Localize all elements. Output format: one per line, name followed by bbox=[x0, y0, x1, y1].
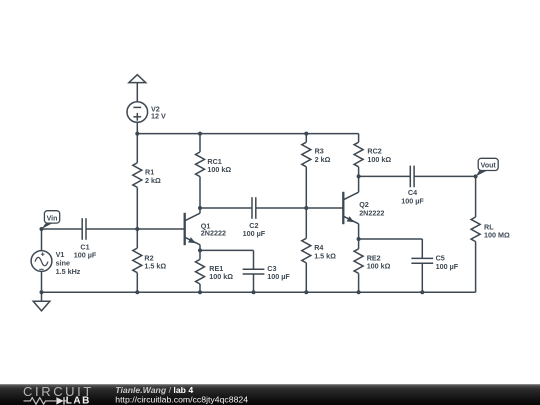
svg-text:100 µF: 100 µF bbox=[74, 251, 97, 260]
svg-text:2 kΩ: 2 kΩ bbox=[315, 155, 331, 164]
node top-rail/R1 bbox=[135, 132, 139, 136]
capacitor C2 bbox=[251, 197, 253, 219]
wire bbox=[256, 207, 306, 209]
node Vout bbox=[474, 174, 478, 178]
node rail/RE2 bbox=[357, 290, 361, 294]
node base/R1/R2 bbox=[135, 227, 139, 231]
svg-text:1.5 kΩ: 1.5 kΩ bbox=[314, 252, 336, 261]
node rail/R4 bbox=[304, 290, 308, 294]
wire bbox=[359, 175, 411, 177]
power supply arrow bbox=[129, 75, 146, 83]
node flag Vout bbox=[476, 170, 488, 176]
node ground/rail bbox=[40, 290, 44, 294]
resistor R1 bbox=[136, 134, 138, 163]
svg-text:100 kΩ: 100 kΩ bbox=[367, 262, 391, 271]
node Q2 base bbox=[304, 206, 308, 210]
capacitor C1 bbox=[81, 218, 83, 240]
wire bbox=[359, 238, 423, 240]
capacitor C4 bbox=[409, 166, 411, 188]
capacitor C5 bbox=[421, 239, 423, 258]
node Vin bbox=[40, 227, 44, 231]
svg-text:100 µF: 100 µF bbox=[243, 229, 266, 238]
svg-text:100 µF: 100 µF bbox=[267, 272, 290, 281]
svg-text:Vin: Vin bbox=[47, 215, 58, 222]
svg-text:http://circuitlab.com/cc8jty4q: http://circuitlab.com/cc8jty4qc8824 bbox=[115, 394, 248, 404]
node rail/RE1 bbox=[198, 290, 202, 294]
wire bbox=[86, 228, 185, 230]
wire bbox=[42, 291, 476, 293]
wire bbox=[200, 249, 254, 251]
wire bbox=[358, 176, 360, 187]
svg-text:100 µF: 100 µF bbox=[401, 197, 424, 206]
wire bbox=[42, 228, 83, 230]
transistor Q1 bbox=[184, 213, 186, 245]
sine source V1 bbox=[31, 251, 52, 272]
svg-text:100 µF: 100 µF bbox=[436, 262, 459, 271]
wire bbox=[41, 229, 43, 251]
wire bbox=[136, 83, 138, 102]
wire bbox=[136, 122, 138, 133]
svg-text:100 MΩ: 100 MΩ bbox=[484, 231, 510, 240]
svg-text:2N2222: 2N2222 bbox=[359, 208, 384, 217]
resistor R4 bbox=[305, 208, 307, 238]
node Q2 collector bbox=[357, 174, 361, 178]
CircuitLab logo resistor-diode squiggle bbox=[24, 398, 68, 405]
capacitor C3 bbox=[253, 250, 255, 269]
svg-text:1.5 kΩ: 1.5 kΩ bbox=[144, 262, 166, 271]
resistor RL bbox=[475, 176, 477, 217]
node Q2 emitter bbox=[357, 237, 361, 241]
wire bbox=[358, 229, 360, 239]
svg-text:100 kΩ: 100 kΩ bbox=[209, 272, 233, 281]
node Q1 emitter bbox=[198, 248, 202, 252]
node rail/R2 bbox=[135, 290, 139, 294]
node top-rail/RC1 bbox=[198, 132, 202, 136]
wire bbox=[414, 175, 476, 177]
wire bbox=[200, 207, 252, 209]
wire bbox=[306, 207, 343, 209]
resistor R2 bbox=[136, 229, 138, 248]
resistor RE1 bbox=[199, 250, 201, 259]
svg-text:100 kΩ: 100 kΩ bbox=[207, 165, 231, 174]
svg-text:1.5 kHz: 1.5 kHz bbox=[56, 267, 81, 276]
node Q1 collector bbox=[198, 206, 202, 210]
svg-text:2 kΩ: 2 kΩ bbox=[145, 176, 161, 185]
node flag Vin bbox=[42, 223, 53, 229]
resistor R3 bbox=[305, 134, 307, 143]
wire bbox=[137, 133, 358, 135]
node rail/C3 bbox=[252, 290, 256, 294]
node rail/C5 bbox=[420, 290, 424, 294]
svg-text:12 V: 12 V bbox=[151, 112, 166, 121]
resistor RE2 bbox=[358, 239, 360, 249]
resistor RC2 bbox=[358, 134, 360, 143]
svg-text:LAB: LAB bbox=[66, 396, 91, 405]
resistor RC1 bbox=[199, 134, 201, 152]
svg-text:100 kΩ: 100 kΩ bbox=[367, 155, 391, 164]
svg-text:2N2222: 2N2222 bbox=[201, 229, 226, 238]
ground bbox=[41, 292, 43, 301]
svg-text:Vout: Vout bbox=[481, 163, 497, 170]
voltage source V2 bbox=[127, 102, 148, 123]
transistor Q2 bbox=[342, 192, 344, 224]
node top-rail/R3 bbox=[304, 132, 308, 136]
wire bbox=[41, 271, 43, 292]
